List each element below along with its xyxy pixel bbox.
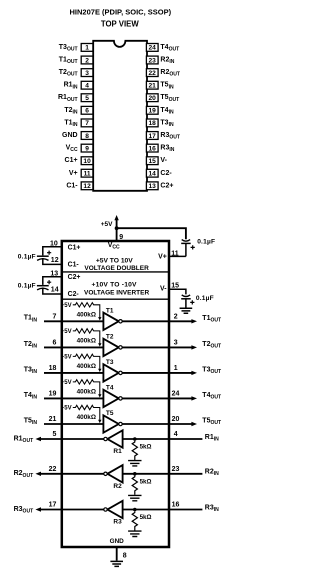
output label T5OUT	[202, 418, 222, 427]
label GND	[110, 538, 125, 545]
pin 6 wire into T2	[44, 340, 103, 348]
svg-text:V+: V+	[69, 170, 78, 177]
svg-text:8: 8	[85, 133, 89, 140]
pin 18 wire into T3	[44, 365, 103, 373]
svg-text:17: 17	[149, 133, 157, 140]
svg-text:19: 19	[49, 391, 57, 398]
pin 9 box	[81, 144, 93, 152]
node junction on R1 input	[133, 437, 137, 441]
svg-text:20: 20	[172, 416, 180, 423]
pin 24 output wire of T4	[122, 391, 197, 401]
pin 24 label T4OUT	[160, 44, 180, 53]
pin 7 box	[81, 119, 93, 127]
svg-text:21: 21	[149, 83, 157, 90]
output label T1OUT	[202, 315, 222, 324]
label VCC	[108, 242, 120, 251]
input label R1IN	[205, 434, 219, 443]
+5V supply arrow	[101, 215, 119, 228]
svg-text:C1-: C1-	[68, 261, 80, 268]
pin 10 label C1+	[65, 157, 78, 164]
ground for R3 resistor	[128, 531, 141, 536]
svg-text:C1-: C1-	[66, 182, 78, 189]
svg-text:6: 6	[85, 108, 89, 115]
svg-text:0.1µF: 0.1µF	[196, 295, 214, 302]
svg-text:R3: R3	[113, 519, 122, 526]
pin 15 stub	[169, 283, 186, 295]
svg-text:23: 23	[172, 466, 180, 473]
transmitter T4 input label T4IN	[24, 392, 38, 401]
svg-text:5kΩ: 5kΩ	[140, 514, 152, 521]
svg-text:0.1µF: 0.1µF	[18, 283, 36, 290]
IC package U1 body with notch	[93, 41, 147, 191]
pin 4 input wire into R1	[123, 431, 203, 439]
ground for R2 resistor	[128, 495, 141, 500]
pin 16 label R3IN	[160, 145, 174, 154]
svg-text:C2-: C2-	[160, 170, 172, 177]
pin 9 label VCC	[66, 145, 78, 154]
node junction on R3 input	[133, 508, 137, 512]
svg-text:T5: T5	[106, 410, 114, 417]
pin 4 box	[81, 81, 93, 89]
transmitter T3 input label T3IN	[24, 366, 38, 375]
pin 12 box	[81, 182, 93, 190]
pin 21 box	[146, 81, 158, 89]
pin 17 box	[146, 132, 158, 140]
svg-text:16: 16	[149, 145, 157, 152]
svg-text:400kΩ: 400kΩ	[77, 337, 96, 344]
resistor 400k pull-up for T3	[61, 354, 102, 372]
pin 6 box	[81, 106, 93, 114]
capacitor C1 0.1uF	[18, 247, 62, 265]
svg-text:C2-: C2-	[68, 291, 80, 298]
pin 16 input wire into R3	[123, 502, 203, 510]
transmitter T1 input label T1IN	[24, 315, 38, 324]
svg-text:19: 19	[149, 108, 157, 115]
pin 22 output wire of R2 with arrow	[35, 466, 103, 476]
label V-	[160, 285, 167, 292]
svg-text:+5V: +5V	[101, 221, 113, 228]
svg-text:11: 11	[171, 250, 179, 257]
resistor 5k on R3 input	[132, 511, 151, 530]
svg-text:24: 24	[149, 45, 157, 52]
pin 3 output wire of T2	[122, 340, 197, 350]
pin 24 box	[146, 44, 158, 52]
svg-text:5kΩ: 5kΩ	[140, 444, 152, 451]
svg-text:T4: T4	[106, 385, 114, 392]
pin 20 output wire of T5	[122, 416, 197, 426]
svg-text:VOLTAGE DOUBLER: VOLTAGE DOUBLER	[84, 265, 149, 272]
pin 13 box	[146, 182, 158, 190]
pin 20 label T5OUT	[160, 94, 180, 103]
pin 12 label C1-	[66, 182, 78, 189]
ground for pin 8	[110, 561, 123, 566]
svg-text:1: 1	[85, 45, 89, 52]
svg-text:+5V: +5V	[61, 303, 72, 309]
svg-text:T3: T3	[106, 359, 114, 366]
main block outline	[62, 241, 169, 547]
capacitor C2 0.1uF	[18, 277, 62, 294]
divider voltage inverter section	[62, 298, 169, 300]
charge pump U1b voltage inverter text	[84, 282, 149, 297]
svg-text:21: 21	[49, 416, 57, 423]
charge pump U1a voltage doubler text	[84, 258, 149, 273]
svg-text:22: 22	[49, 466, 57, 473]
label C1-	[68, 261, 80, 268]
svg-text:+10V TO -10V: +10V TO -10V	[91, 282, 137, 289]
svg-text:13: 13	[149, 183, 157, 190]
receiver R1 triangle	[104, 430, 123, 455]
title HIN207E	[70, 7, 172, 28]
svg-text:5: 5	[52, 431, 56, 438]
resistor 5k on R1 input	[132, 441, 151, 460]
svg-text:+5V: +5V	[61, 380, 72, 386]
pin 1 box	[81, 44, 93, 52]
pin 8 box	[81, 132, 93, 140]
svg-text:18: 18	[149, 120, 157, 127]
output label T3OUT	[202, 367, 222, 376]
pin 5 output wire of R1 with arrow	[35, 431, 103, 441]
svg-text:12: 12	[83, 183, 91, 190]
svg-text:7: 7	[52, 314, 56, 321]
capacitor C4 0.1uF on V-	[181, 295, 214, 308]
node VCC junction	[115, 226, 119, 230]
ground for R1 resistor	[128, 461, 141, 466]
pin 8 label GND	[62, 132, 78, 139]
pin 14 box	[146, 169, 158, 177]
resistor 400k pull-up for T4	[61, 380, 102, 398]
svg-text:0.1µF: 0.1µF	[197, 239, 215, 246]
svg-text:4: 4	[85, 83, 89, 90]
pin 5 box	[81, 94, 93, 102]
pin 12 stub	[51, 257, 59, 264]
pin 3 box	[81, 69, 93, 77]
svg-text:400kΩ: 400kΩ	[77, 388, 96, 395]
svg-text:T1: T1	[106, 307, 114, 314]
svg-text:14: 14	[51, 287, 59, 294]
input label R3IN	[205, 504, 219, 513]
label C2+	[68, 274, 81, 281]
transmitter T5 input label T5IN	[24, 417, 38, 426]
pin 15 label V-	[160, 157, 167, 164]
svg-text:V+: V+	[158, 254, 167, 261]
pin 17 label R3OUT	[160, 132, 181, 141]
pin 23 label R2IN	[160, 56, 174, 65]
ground for C4	[180, 308, 193, 313]
svg-text:5kΩ: 5kΩ	[140, 478, 152, 485]
svg-text:C2+: C2+	[68, 274, 81, 281]
resistor 5k on R2 input	[132, 476, 151, 495]
svg-text:400kΩ: 400kΩ	[77, 414, 96, 421]
transmitter T2 input label T2IN	[24, 341, 38, 350]
pin 18 box	[146, 119, 158, 127]
pin 11 box	[81, 169, 93, 177]
pin 2 box	[81, 56, 93, 64]
output label T2OUT	[202, 341, 222, 350]
svg-text:0.1µF: 0.1µF	[18, 253, 36, 260]
svg-text:15: 15	[149, 158, 157, 165]
resistor 400k pull-up for T1	[61, 303, 102, 321]
svg-text:C1+: C1+	[65, 157, 78, 164]
svg-text:VOLTAGE INVERTER: VOLTAGE INVERTER	[84, 289, 149, 296]
svg-text:T2: T2	[106, 334, 114, 341]
receiver R2 output label R2OUT	[14, 470, 35, 479]
pin 20 box	[146, 94, 158, 102]
svg-text:C2+: C2+	[160, 182, 173, 189]
svg-text:6: 6	[52, 340, 56, 347]
pin 4 label R1IN	[64, 82, 78, 91]
pin 22 label R2OUT	[160, 69, 181, 78]
svg-text:C1+: C1+	[68, 245, 81, 252]
svg-text:+5V: +5V	[61, 406, 72, 412]
svg-text:10: 10	[83, 158, 91, 165]
svg-text:8: 8	[123, 552, 127, 559]
svg-text:17: 17	[49, 502, 57, 509]
pin 18 label T3IN	[160, 119, 174, 128]
svg-text:TOP VIEW: TOP VIEW	[101, 19, 139, 28]
receiver R3 output label R3OUT	[14, 506, 35, 515]
svg-text:9: 9	[85, 145, 89, 152]
pin 23 input wire into R2	[123, 466, 203, 474]
pin 19 label T4IN	[160, 107, 174, 116]
pin 3 label T2OUT	[59, 69, 79, 78]
pin 1 output wire of T3	[122, 365, 197, 375]
pin 2 label T1OUT	[59, 56, 79, 65]
resistor 400k pull-up for T5	[61, 405, 102, 423]
input label R2IN	[205, 469, 219, 478]
svg-text:5: 5	[85, 95, 89, 102]
label V+	[158, 254, 167, 261]
pin 5 label R1OUT	[58, 94, 79, 103]
svg-text:400kΩ: 400kΩ	[77, 363, 96, 370]
pin 6 label T2IN	[64, 107, 78, 116]
svg-text:12: 12	[51, 257, 59, 264]
pin 11 stub	[169, 250, 186, 257]
svg-text:+5V: +5V	[61, 355, 72, 361]
svg-text:15: 15	[171, 283, 179, 290]
svg-text:3: 3	[174, 340, 178, 347]
svg-text:2: 2	[85, 57, 89, 64]
pin 10 box	[81, 157, 93, 165]
output label T4OUT	[202, 392, 222, 401]
label C1+	[68, 245, 81, 252]
svg-text:GND: GND	[62, 132, 78, 139]
pin 1 label T3OUT	[59, 44, 79, 53]
svg-text:+5V: +5V	[61, 329, 72, 335]
svg-text:+5V TO 10V: +5V TO 10V	[96, 258, 133, 265]
transmitter T1 inverter triangle	[103, 307, 122, 330]
capacitor C3 0.1uF on V+	[181, 239, 215, 257]
svg-text:V-: V-	[160, 157, 167, 164]
pin 8 stub	[117, 547, 127, 561]
pin 19 wire into T4	[44, 391, 103, 399]
svg-text:11: 11	[84, 171, 91, 178]
transmitter T5 inverter triangle	[103, 410, 122, 433]
pin 15 box	[146, 157, 158, 165]
pin 2 output wire of T1	[122, 314, 197, 324]
svg-text:20: 20	[149, 95, 157, 102]
pin 9 stub wire	[117, 228, 124, 241]
pin 23 box	[146, 56, 158, 64]
pin 21 label T5IN	[160, 82, 174, 91]
pin 13 stub	[50, 270, 58, 277]
transmitter T3 inverter triangle	[103, 359, 122, 382]
svg-text:2: 2	[174, 314, 178, 321]
resistor 400k pull-up for T2	[61, 329, 102, 347]
svg-text:R1: R1	[113, 448, 122, 455]
svg-text:18: 18	[49, 365, 57, 372]
transmitter T4 inverter triangle	[103, 385, 122, 408]
svg-text:22: 22	[149, 70, 157, 77]
svg-text:400kΩ: 400kΩ	[77, 311, 96, 318]
pin 14 label C2-	[160, 170, 172, 177]
receiver R2 triangle	[104, 465, 123, 490]
svg-text:23: 23	[149, 57, 157, 64]
svg-text:1: 1	[174, 365, 178, 372]
svg-text:16: 16	[172, 502, 180, 509]
svg-text:R2: R2	[113, 483, 122, 490]
pin 17 output wire of R3 with arrow	[35, 502, 103, 512]
wire +5V rail to bypass cap	[117, 228, 186, 239]
pin 21 wire into T5	[44, 416, 103, 424]
svg-text:HIN207E (PDIP, SOIC, SSOP): HIN207E (PDIP, SOIC, SSOP)	[70, 7, 172, 16]
receiver R1 output label R1OUT	[14, 435, 35, 444]
divider voltage doubler section	[62, 271, 169, 273]
pin 13 label C2+	[160, 182, 173, 189]
pin 7 label T1IN	[64, 119, 78, 128]
svg-text:4: 4	[174, 431, 178, 438]
pin 7 wire into T1	[44, 314, 103, 322]
label C2-	[68, 291, 80, 298]
svg-text:24: 24	[172, 391, 180, 398]
svg-text:7: 7	[85, 120, 89, 127]
pin 22 box	[146, 69, 158, 77]
svg-text:3: 3	[85, 70, 89, 77]
pin 10 stub	[50, 240, 58, 247]
receiver R3 triangle	[104, 501, 123, 526]
svg-text:V-: V-	[160, 285, 167, 292]
pin 14 stub	[51, 287, 59, 294]
pin 16 box	[146, 144, 158, 152]
svg-text:14: 14	[149, 171, 157, 178]
pin 11 label V+	[69, 170, 78, 177]
node junction on R2 input	[133, 472, 137, 476]
transmitter T2 inverter triangle	[103, 334, 122, 357]
svg-text:GND: GND	[110, 538, 125, 545]
pin 19 box	[146, 106, 158, 114]
